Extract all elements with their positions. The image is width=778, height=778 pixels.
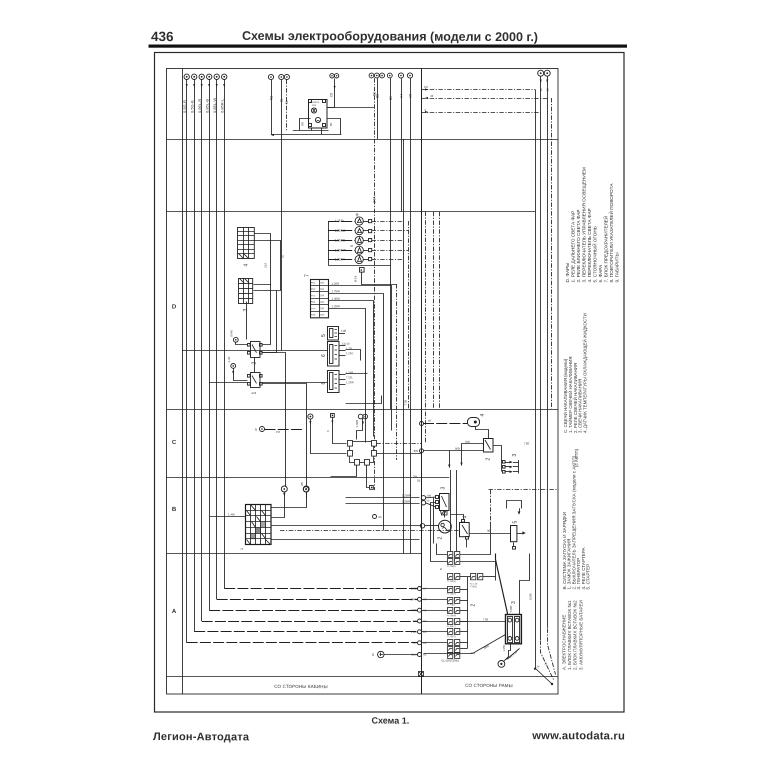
svg-text:2: 2 [471,604,477,607]
wire stack to pair [468,576,471,578]
wire from terminal 2 down to A-section bend [194,80,196,632]
left row-label strip divider [182,69,184,695]
svg-text:CT(63): CT(63) [470,586,477,588]
svg-text:30B: 30B [465,440,470,444]
svg-text:2: 2 [438,537,444,540]
svg-text:СО СТОРОНЫ РАМЫ: СО СТОРОНЫ РАМЫ [465,683,513,688]
svg-text:FU2: FU2 [311,289,316,291]
wire from junction box down [362,273,397,285]
svg-text:3: 3 [511,601,517,604]
svg-text:1.25W: 1.25W [331,304,340,308]
wire from terminal 6 down to A-section bend [224,80,226,589]
svg-text:5. СТОЯНОЧНЫЙ ОГОНЬ: 5. СТОЯНОЧНЫЙ ОГОНЬ [591,226,598,282]
inner schematic frame [167,69,559,695]
svg-text:B2: B2 [376,94,380,98]
section divider y478 [167,477,450,479]
svg-text:2: 2 [486,458,492,461]
svg-text:4: 4 [480,414,486,417]
svg-text:3W: 3W [413,641,418,645]
svg-text:BL: BL [329,122,333,126]
connector terminals top group 2 [268,74,289,79]
svg-text:Схемы электрооборудования (мод: Схемы электрооборудования (модели с 2000… [242,29,538,44]
wire long y525 [271,525,421,527]
fusible link pair row 8 [447,629,460,639]
wire stack feed verticals [450,470,452,552]
wire right-2 diagonal [548,629,556,675]
wire relay2 right to plugs [493,446,502,472]
fusible link pair A-top [470,574,483,589]
section divider y212 [167,211,536,213]
svg-text:HT: HT [428,419,432,423]
glow plug timer block [348,441,377,466]
wire terminal to switch1 [234,369,248,381]
wire fuse box third feed [272,539,420,541]
wire 410 down [410,78,412,553]
wire vertical x403.5 [403,139,405,554]
svg-text:3W: 3W [413,449,418,453]
outer frame [155,53,625,713]
svg-text:2WR: 2WR [411,597,417,601]
wire right-2 down [547,76,549,628]
wire from terminal 281 down [281,80,283,351]
generator 2 [439,520,452,533]
wire fuse block pin 4 [329,309,366,443]
svg-text:3: 3 [243,309,249,312]
wire relay4 bottom [466,540,468,548]
svg-text:2L: 2L [280,98,284,102]
svg-text:1.25WB: 1.25WB [402,494,411,498]
wire from terminal 5 down to A-section bend [216,80,218,600]
svg-text:1.25RY: 1.25RY [334,258,345,262]
starter solenoid 5 [511,526,517,542]
lamp 5 pin [369,258,372,261]
wire A-section horizontal run 6 [224,588,417,590]
svg-text:2. РЕЛЕ БЛИЖНЕГО СВЕТА ФАР: 2. РЕЛЕ БЛИЖНЕГО СВЕТА ФАР [576,209,581,282]
svg-text:H5: H5 [408,94,412,98]
svg-text:FL-30(G): FL-30(G) [447,636,456,638]
svg-text:C4-10: C4-10 [342,342,350,346]
svg-text:2WL: 2WL [411,630,417,634]
wire terminal a to fuse box [272,493,285,518]
connector terminal pair top-right [538,70,551,76]
wire relay5 right [346,396,382,404]
svg-text:A. ЭЛЕКТРОСНАБЖЕНИЕ: A. ЭЛЕКТРОСНАБЖЕНИЕ [562,615,567,670]
relay box 6b [328,371,340,393]
svg-text:B: B [172,507,177,513]
svg-text:1.25RG: 1.25RG [334,229,346,233]
svg-text:Легион-Автодата: Легион-Автодата [153,731,250,743]
svg-text:1.35W: 1.35W [331,297,340,301]
svg-text:FL-40(R): FL-40(R) [447,581,456,583]
starter relay 4 [460,520,470,540]
wire block4 pin a to block3 [254,234,271,285]
terminal pair C-right [358,414,363,419]
wire A-section horizontal run 2 [194,631,417,633]
wire vertical x408.4 dashdot [408,221,410,410]
lamp 1 pin [369,220,372,223]
node terminal A1 on divider [418,653,422,657]
wire fuse box left [210,516,246,518]
wire bus y130.2 [293,130,329,132]
wire from terminal 3 down to A-section bend [201,80,203,622]
svg-text:3: 3 [441,487,447,490]
svg-text:5: 5 [255,428,257,432]
terminal circle B gen [420,524,424,528]
svg-text:www.autodata.ru: www.autodata.ru [531,730,625,742]
svg-text:C4B: C4B [341,329,346,333]
terminal at switch 2 [233,337,238,342]
svg-text:0.5G-B: 0.5G-B [189,100,194,113]
junction x-box at divider bottom [419,672,424,677]
svg-text:21A: 21A [264,263,268,268]
svg-text:1.4W: 1.4W [228,513,235,517]
lamp 2 pin [369,230,372,233]
wire battery left T1B [460,621,506,623]
connector terminals top group 3 [369,73,392,78]
wire battery diagonal down-left [424,635,506,654]
wire dashdot horizontal y98 [421,98,547,100]
wire 5+ to divider [384,654,418,656]
wire switch2 bottom to switch1 top [254,358,256,373]
section divider y553.5 [167,553,422,555]
ground label diagonal [507,649,520,660]
svg-text:7W: 7W [413,619,418,623]
node terminal A7 on divider [418,587,422,591]
wire terminal row 5 to stack [422,631,448,633]
wire relay1 bottom pins [312,128,322,135]
bottom label strip line y676 [167,676,559,678]
fusible link pair row 4 [447,587,460,596]
fusible link pair row 1 [448,552,460,558]
connector block 3 [239,278,254,304]
wire fuse block pin 3 [329,301,374,437]
connector hatch under block3 [441,511,448,516]
legend block D (headlights) [565,167,620,282]
svg-text:7.25L: 7.25L [346,375,353,379]
connector block 4 [238,227,255,259]
svg-text:B-18: B-18 [354,275,358,282]
svg-text:436: 436 [151,29,174,44]
wire relay2 left a [462,444,484,466]
svg-text:10A: 10A [320,288,325,291]
wire 401 long [401,78,403,212]
svg-text:1.75W: 1.75W [331,289,340,293]
wire battery right up [520,554,530,615]
wire relay1 left bracket [300,119,311,131]
fusible link pair row 5 [447,598,460,607]
wire relay2 left b [450,451,484,468]
svg-text:FU4: FU4 [311,302,316,304]
svg-text:T1B: T1B [483,617,488,621]
svg-text:10A: 10A [312,104,317,107]
svg-text:1: 1 [252,392,258,395]
svg-text:1W: 1W [276,430,281,434]
svg-text:1. БЛОК ПЛАВКИХ ВСТАВОК №1: 1. БЛОК ПЛАВКИХ ВСТАВОК №1 [567,600,572,670]
wire fuse block pin 1 [329,286,392,431]
svg-text:4. ДАТЧИК ТЕМПЕРАТУРЫ ОХЛАЖДАЮ: 4. ДАТЧИК ТЕМПЕРАТУРЫ ОХЛАЖДАЮЩЕЙ ЖИДКОС… [583,313,588,433]
bracket box B [507,501,522,509]
svg-text:1.25WL: 1.25WL [402,500,411,504]
svg-text:1.40B: 1.40B [355,420,359,428]
svg-text:1. РЕЛЕ ДАЛЬНЕГО СВЕТА ФАР: 1. РЕЛЕ ДАЛЬНЕГО СВЕТА ФАР [571,211,576,283]
wire vertical x396.5 dashdot [396,284,398,460]
wire from terminal 1 down to A-section bend [186,80,188,643]
terminal square C [331,414,335,418]
svg-text:4. ПЕРЕКЛЮЧАТЕЛЬ СВЕТА ФАР: 4. ПЕРЕКЛЮЧАТЕЛЬ СВЕТА ФАР [587,208,592,282]
wire A-section horizontal run 1 [187,642,418,644]
svg-text:ЛУ40: ЛУ40 [230,330,234,337]
svg-text:6. ФАРА: 6. ФАРА [598,264,603,283]
wire battery bottom to ground [504,644,511,662]
wire A-section horizontal run 5 [217,599,418,601]
relay box 5a [328,327,339,341]
svg-text:1B: 1B [417,479,421,483]
svg-text:EL-БЛ(С)№1: EL-БЛ(С)№1 [441,659,459,663]
ground terminal [498,661,505,668]
lamp 4 pin [369,249,372,252]
svg-text:12: 12 [539,88,543,92]
svg-text:FU1: FU1 [311,283,316,285]
wire lamp feed bottom [329,265,391,267]
wire bracket down to switch2 pin a [263,285,271,345]
svg-text:10A: 10A [320,314,325,317]
terminal circle C-left [308,414,313,419]
svg-text:T1B: T1B [404,400,408,406]
svg-text:04: 04 [379,515,382,519]
fusible link pair row 6 [447,608,460,618]
wire relay1 right bracket [327,119,341,135]
legend block C (glow plugs) [563,313,588,433]
wire C square down [333,418,347,444]
svg-text:1.25RL: 1.25RL [334,219,345,223]
svg-text:Y30B: Y30B [509,606,513,613]
terminal circle above fuse box a [281,486,287,492]
svg-text:D: D [172,304,177,310]
svg-text:0.85L-B: 0.85L-B [204,99,209,113]
svg-text:6: 6 [321,354,327,357]
terminal circle above fuse box b [303,486,309,492]
svg-text:1.25B: 1.25B [503,645,506,652]
svg-text:1.25R: 1.25R [331,282,339,286]
fuse box block (cab) [246,505,272,545]
wire C pair down to timer [357,419,363,440]
svg-text:1.25RB: 1.25RB [334,238,345,242]
legend block B (starting and charging) [562,455,591,589]
svg-text:FL-30(W): FL-30(W) [447,615,457,617]
svg-text:T20: T20 [524,442,530,446]
wire relay4 top [451,515,464,520]
node terminal A4 on divider [418,619,422,623]
svg-text:7. БЛОК ПРЕДОХРАНИТЕЛЕЙ: 7. БЛОК ПРЕДОХРАНИТЕЛЕЙ [602,216,609,283]
wire right-1 diagonal [541,641,554,680]
wire from terminal 4 down to A-section bend [209,80,211,611]
wire 332 to relay1 top [327,79,335,108]
svg-text:24: 24 [536,665,540,669]
terminal pair B-left [421,496,425,500]
wire switch1 right returns [262,384,307,487]
wire stack row1 right [460,523,491,555]
wire long horizontal y350 [182,350,328,352]
svg-text:FL-50(G): FL-50(G) [447,593,456,595]
svg-text:B: B [439,568,443,570]
svg-text:1.25W: 1.25W [346,380,354,384]
wire timer right pin2 [377,453,422,455]
lamp column (clearance lights) [328,221,330,266]
svg-text:C2: C2 [424,85,428,89]
glow plug relay 2 [484,439,494,453]
svg-text:0.5G-R: 0.5G-R [182,100,187,113]
relay box 6a [328,342,340,367]
svg-text:30B: 30B [426,494,431,498]
section divider y139 [167,139,559,141]
wire timer right pin1 dashdot [377,443,422,445]
svg-text:ф: ф [355,213,359,216]
ignition block 3 [436,494,450,511]
svg-text:5. СТАРТЕР: 5. СТАРТЕР [586,564,591,590]
svg-text:3: 3 [512,454,518,457]
wire bracket down to switch2 pin b [263,291,277,353]
coolant temp sensor 4 [468,418,480,427]
lamp 3 [355,236,363,244]
wire terminal row 1 to stack [422,588,448,590]
wire B-left to block3 [426,496,436,499]
svg-text:10A: 10A [320,307,325,310]
connector block 7 (fuse block) [310,279,329,318]
wire terminal to switch2 [236,343,248,345]
header rule [149,45,628,48]
node terminal A2 on divider [418,641,422,645]
wire terminal 5 dash right [265,429,303,431]
svg-text:A4: A4 [423,619,427,623]
svg-text:Схема 1.: Схема 1. [371,716,409,726]
svg-text:5: 5 [321,334,327,337]
connector terminal pair 332/337 [330,74,339,78]
section divider y408.5 [167,409,559,411]
svg-text:5: 5 [512,521,518,524]
svg-text:7WG: 7WG [410,608,416,612]
connector terminals top-left group (6 ring terminals) [184,74,227,79]
wire block4 pin b to block3 [254,241,281,291]
terminal at switch 1 [231,364,236,369]
switch 1 [248,373,263,388]
wire 381 down [377,78,379,139]
svg-text:FU5: FU5 [311,308,316,310]
svg-text:24A: 24A [372,196,376,203]
fusible link pair row 7 [447,619,460,629]
svg-text:1: 1 [240,548,244,550]
svg-text:H4: H4 [399,94,403,98]
wire stack top bracket a [437,544,448,555]
wire x535 diagonal to corner [536,669,552,684]
svg-text:43: 43 [430,94,434,98]
node terminal A3 on divider [418,630,422,634]
fusible link pair row 10 [448,647,460,653]
wire bulb rows right dashdot [372,221,403,223]
svg-text:C6: C6 [329,93,333,97]
wire pair right [483,576,496,578]
svg-text:5L: 5L [285,100,289,104]
svg-text:FL-40(Y): FL-40(Y) [447,626,456,628]
wire terminal row 3 to stack [422,610,448,612]
wire switch2 right returns [262,353,286,487]
wire dashdot B frame horizontal [489,489,559,491]
svg-text:1.25R: 1.25R [346,371,353,375]
svg-text:FU6: FU6 [311,315,316,317]
switch 2 [248,342,263,358]
wire block3 bottom to switch2 [246,302,248,340]
wire timer bottom pin1 [331,466,357,477]
fusible link pair row 2 [447,559,460,568]
svg-text:12: 12 [546,88,550,92]
wire relay6b right [346,373,368,375]
terminal square C-bottom [370,486,374,490]
wire terminal row 4 to stack [422,621,448,623]
wire bus y134.9 [272,134,342,136]
wire dashdot B frame vertical [490,490,492,524]
svg-text:3. АККУМУЛЯТОРНЫЕ БАТАРЕИ: 3. АККУМУЛЯТОРНЫЕ БАТАРЕИ [578,600,583,670]
svg-text:0.85R-L: 0.85R-L [219,98,224,113]
svg-text:3. ПЕРЕКЛЮЧАТЕЛЬ УПРАВЛЕНИЯ ОС: 3. ПЕРЕКЛЮЧАТЕЛЬ УПРАВЛЕНИЯ ОСВЕЩЕНИЕМ [582,167,587,282]
wire relay4 right to solenoid [470,533,511,535]
wire from terminal 287 down [286,80,288,131]
svg-text:30: 30 [487,529,491,533]
svg-text:B3: B3 [389,96,393,100]
fusible link pair row 9 [448,640,460,646]
svg-text:FU3: FU3 [311,295,316,297]
wire stack top bracket b [431,544,448,562]
svg-text:2: 2 [252,362,258,365]
svg-text:2. БЛОК ПЛАВКИХ ВСТАВОК №2: 2. БЛОК ПЛАВКИХ ВСТАВОК №2 [573,600,578,670]
wire B feeds from cab side [346,497,420,499]
wire sensor left dashdot [423,423,468,425]
svg-text:10A: 10A [320,282,325,285]
wire bracket arrow [519,508,521,511]
wire block3 legs down [431,503,436,544]
svg-text:1.25RW: 1.25RW [334,248,345,252]
wire sensor stub [476,427,489,439]
wire gen left [425,525,439,527]
wire dashdot vertical x551 [551,98,553,409]
wire stack right bus [467,577,469,648]
svg-text:0.85L-W: 0.85L-W [212,98,217,113]
terminal 5 C-section [260,427,265,432]
wire relay6a right [346,350,361,361]
wire 374 long dash-dot [374,78,376,490]
svg-text:2WB: 2WB [411,586,417,590]
connector terminals top group 4 [398,73,412,78]
node terminal A5 on divider [418,608,422,612]
wire feed diagonal to battery [496,554,508,615]
svg-text:4: 4 [244,264,250,267]
relay 1 (high beam relay) [309,100,328,129]
battery block 3 [506,615,522,644]
terminal circle 04 [373,515,377,519]
wire A-section horizontal run 4 [209,610,417,612]
terminal on divider y450.8 [420,449,424,453]
fusible link pair row 11 [448,653,460,659]
wire 387.8 down [390,78,392,265]
svg-text:2L: 2L [280,254,284,258]
wire from terminal 271 down [271,80,273,135]
svg-text:1-10: 1-10 [227,356,231,362]
node terminal A6 on divider [418,597,422,601]
svg-text:8. ПОВТОРИТЕЛИ УКАЗАТЕЛЕЙ ПОВО: 8. ПОВТОРИТЕЛИ УКАЗАТЕЛЕЙ ПОВОРОТА [607,183,614,283]
svg-text:7: 7 [305,274,311,277]
svg-text:СО СТОРОНЫ КАБИНЫ: СО СТОРОНЫ КАБИНЫ [274,684,328,689]
lamp 2 [355,227,363,235]
terminal 5+ [378,651,384,657]
terminal circle C-bottom-left [303,487,308,492]
